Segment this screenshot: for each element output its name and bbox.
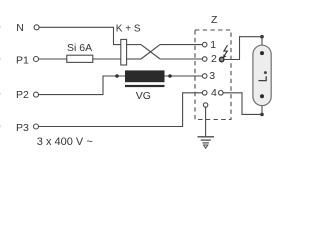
svg-text:VG: VG [136,90,151,102]
terminal 3 [202,74,207,79]
wire into lamp top electrode [261,37,263,53]
edge mark row P2 [0,93,1,96]
terminal 4 [202,91,207,96]
spark arrow [224,45,228,55]
ignitor box Z dashed [195,30,231,120]
svg-text:1: 1 [210,39,216,51]
lamp electrode bottom [260,94,264,98]
svg-text:4: 4 [211,87,217,99]
svg-text:3 x 400 V ~: 3 x 400 V ~ [37,136,93,148]
label La rotated a dot [264,71,267,74]
wire terminal 2 to lamp top [224,37,262,60]
svg-text:Z: Z [211,14,218,26]
terminal 1 [202,42,207,47]
fuse Si 6A [67,55,93,62]
svg-text:P2: P2 [16,89,29,101]
edge mark row P1 [0,58,1,61]
terminal P2 [34,92,39,97]
wire N horizontal [39,27,121,44]
wire P1 to fuse [39,58,67,60]
junction ballast right [168,74,172,78]
svg-text:3: 3 [209,70,215,82]
edge mark row N [0,26,1,29]
wire crossing to terminal 2 [160,58,202,60]
wire terminal 4 to lamp bottom [223,93,262,115]
wire crossing diagonal down [141,45,160,59]
terminal P1 [34,57,39,62]
wire crossing to terminal 1 [160,44,202,46]
ground bar 1 [198,136,215,138]
ignition electrode donut [220,57,224,61]
lamp La envelope [253,45,271,105]
ballast VG core bar [125,85,165,87]
terminal P3 [34,124,39,129]
svg-text:Si 6A: Si 6A [67,42,92,54]
lamp electrode top [260,51,264,55]
terminal 2 [202,57,207,62]
junction ballast left [115,74,119,78]
wire switch to crossing bottom [127,58,142,60]
wire crossing diagonal up [141,45,160,59]
edge mark row P3 [0,125,1,128]
wire switch to crossing top [127,44,142,46]
wire fuse to switch [93,58,121,60]
wire into lamp bottom electrode [261,96,263,115]
ground wire [205,107,207,137]
wire ballast to terminal 3 [165,75,203,77]
ground terminal [203,103,207,107]
switch K+S contact [121,39,127,65]
label La rotated L stroke [258,76,266,80]
ballast VG body [125,70,165,82]
ground bar 2 [201,139,211,141]
junction lamp bottom [260,113,264,117]
junction lamp top [260,35,264,39]
svg-text:K + S: K + S [116,23,141,34]
svg-text:P1: P1 [16,54,29,66]
ground tip triangle [204,145,208,148]
wire P2 to ballast [39,76,125,95]
svg-text:N: N [16,22,24,34]
svg-text:P3: P3 [16,122,29,134]
ground bar 3 [203,142,209,144]
terminal 4 output [219,91,224,96]
svg-text:2: 2 [211,53,217,65]
terminal N [34,25,39,30]
wire P3 to terminal 4 [39,93,203,127]
spark arrowhead [223,55,227,59]
